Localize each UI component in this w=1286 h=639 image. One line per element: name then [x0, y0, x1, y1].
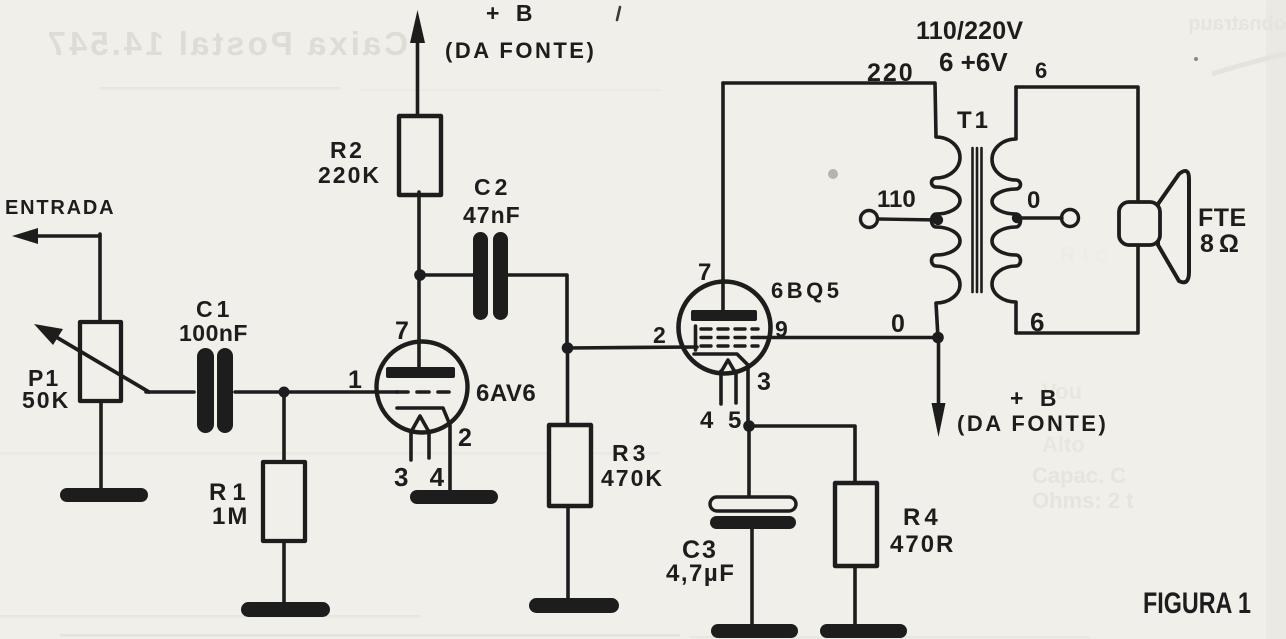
wire P1 to ground	[99, 401, 103, 492]
label 220	[867, 59, 915, 87]
label pin 7 V1	[395, 317, 409, 345]
svg-text:R3: R3	[612, 440, 649, 466]
svg-text:470R: 470R	[890, 531, 955, 558]
svg-text:FIGURA 1: FIGURA 1	[1143, 587, 1251, 620]
svg-text:T1: T1	[957, 107, 991, 134]
wire R4 to ground	[853, 566, 857, 626]
wire R3 to ground	[566, 507, 570, 600]
svg-text:100nF: 100nF	[179, 320, 248, 346]
resistor R2 body	[399, 116, 441, 195]
tube V2 6BQ5 envelope	[679, 282, 771, 374]
svg-text:110/220V: 110/220V	[916, 17, 1023, 45]
wire C2 to R3 junction	[507, 275, 567, 348]
svg-text:6BQ5: 6BQ5	[771, 278, 842, 303]
wire top rail to T1 primary	[723, 81, 934, 85]
svg-text:Caixa Postal 14.547: Caixa Postal 14.547	[45, 25, 408, 62]
svg-text:R4: R4	[903, 504, 942, 531]
tube V1 cathode	[397, 408, 450, 493]
wire R1 to ground	[282, 541, 286, 606]
node 0 junction primary bottom	[932, 332, 944, 344]
node junction C1/R1	[279, 387, 290, 398]
svg-text:Capac. C: Capac. C	[1032, 463, 1126, 488]
wire junction to C2	[420, 273, 474, 277]
svg-text:50K: 50K	[22, 387, 70, 413]
ground under R4	[820, 624, 907, 638]
svg-text:470K: 470K	[601, 465, 664, 491]
speaker FTE driver	[1119, 202, 1160, 245]
label R3 470K	[601, 440, 664, 491]
svg-text:6AV6: 6AV6	[476, 380, 536, 407]
svg-text:ENTRADA: ENTRADA	[5, 197, 115, 219]
node junction C2/R3	[562, 342, 574, 354]
svg-text:0: 0	[1027, 187, 1040, 214]
svg-text:+ B: + B	[486, 0, 537, 26]
label 110	[877, 186, 916, 213]
wire R2 to V1 plate	[417, 192, 421, 369]
capacitor C1	[197, 348, 233, 433]
label R4 470R	[890, 504, 955, 558]
tube V1 plate	[386, 367, 455, 378]
transformer T1 primary winding	[932, 83, 961, 338]
svg-text:(DA FONTE): (DA FONTE)	[445, 38, 596, 63]
label 0 node	[891, 310, 905, 338]
label 6BQ5	[771, 278, 842, 303]
potentiometer P1 wiper arrow	[34, 324, 149, 392]
transformer T1 core	[973, 148, 982, 292]
ground under C3	[711, 624, 798, 638]
tube V2 plate	[691, 310, 757, 321]
label FTE 8ohm	[1198, 204, 1247, 258]
svg-text:2: 2	[653, 322, 666, 348]
label pin 7 V2	[698, 259, 711, 286]
ground under V1 pin2	[410, 490, 498, 504]
wire P1 wiper to C1	[146, 390, 194, 394]
svg-text:2: 2	[458, 424, 472, 452]
wire C1 to grid of V1	[235, 390, 398, 394]
svg-text:0: 0	[891, 310, 905, 338]
label pin 1 V1	[348, 366, 362, 394]
svg-text:4 5: 4 5	[700, 407, 745, 434]
label C3 4,7uF	[666, 536, 735, 587]
wire C3 to ground	[750, 529, 754, 626]
svg-text:R2: R2	[330, 137, 364, 163]
svg-text:6 +6V: 6 +6V	[939, 47, 1008, 77]
svg-text:R1: R1	[209, 479, 252, 506]
label T1	[957, 107, 991, 134]
label ENTRADA	[5, 197, 115, 219]
svg-text:47nF: 47nF	[463, 202, 521, 228]
primary tap terminal 110	[861, 211, 944, 228]
label P1 50K	[22, 365, 70, 413]
label C1 100nF	[179, 296, 248, 346]
svg-text:3 4: 3 4	[394, 462, 451, 492]
label 110/220V	[916, 17, 1023, 45]
wire secondary top to speaker	[1016, 87, 1138, 202]
resistor R1 body	[263, 462, 305, 541]
resistor R3 body	[549, 425, 591, 506]
label pin 9 V2	[775, 316, 788, 342]
wire V2 pin7 to top rail	[721, 83, 725, 312]
label pins 3 4 V1	[394, 462, 451, 492]
wire junction to R4	[749, 426, 855, 484]
label +B top	[486, 0, 537, 26]
speaker FTE cone	[1158, 171, 1189, 282]
label FIGURA 1	[1143, 587, 1251, 620]
label C2 47nF	[463, 174, 521, 228]
svg-text:4,7µF: 4,7µF	[666, 560, 735, 587]
label 0 tap	[1027, 187, 1040, 214]
svg-text:R t c: R t c	[1060, 242, 1108, 267]
ground under R3	[529, 598, 619, 613]
label (DA FONTE) top	[445, 38, 596, 63]
resistor R4 body	[835, 483, 877, 566]
ground under P1	[60, 488, 148, 502]
ground under R1	[241, 602, 330, 617]
svg-text:(DA FONTE): (DA FONTE)	[957, 411, 1108, 436]
tube V2 grids (dashed rows)	[696, 326, 759, 350]
stray ink tick	[617, 7, 620, 20]
tube V1 heater	[411, 416, 429, 460]
wire secondary bottom to speaker	[1016, 245, 1138, 333]
label pin 2 V2	[653, 322, 666, 348]
wire V2 pin9 to node 0	[758, 336, 938, 340]
tube V2 heater	[721, 360, 736, 404]
wire junction to R1	[282, 392, 286, 463]
node junction R2/C2	[414, 269, 426, 281]
svg-text:3: 3	[757, 368, 771, 396]
wire junction to C3	[747, 426, 751, 498]
tube V1 6AV6 envelope	[377, 342, 468, 433]
svg-text:7: 7	[698, 259, 711, 286]
node junction cathode V2	[743, 420, 755, 432]
label (DA FONTE) bottom	[957, 411, 1108, 436]
svg-text:7: 7	[395, 317, 409, 345]
svg-text:1M: 1M	[212, 503, 249, 530]
svg-text:Ohms: 2 t: Ohms: 2 t	[1032, 488, 1134, 513]
svg-text:9: 9	[775, 316, 788, 342]
svg-text:FTE: FTE	[1198, 204, 1247, 232]
svg-text:obnatrauq: obnatrauq	[1188, 13, 1286, 35]
svg-text:8Ω: 8Ω	[1200, 230, 1244, 258]
svg-text:C1: C1	[196, 296, 233, 322]
wire junction to V2 grid	[567, 347, 697, 348]
label R1 1M	[209, 479, 252, 530]
label R2 220K	[318, 137, 381, 188]
tube V2 cathode	[694, 354, 748, 426]
svg-text:C2: C2	[474, 174, 511, 200]
potentiometer P1 body	[80, 322, 121, 401]
svg-text:110: 110	[877, 186, 916, 213]
label +B bottom	[1010, 385, 1061, 411]
wire input to P1	[98, 234, 102, 323]
label 6+6V	[939, 47, 1008, 77]
capacitor C2	[473, 232, 508, 320]
svg-text:220K: 220K	[318, 162, 381, 188]
svg-text:6: 6	[1035, 58, 1047, 83]
svg-text:1: 1	[348, 366, 362, 394]
label pin 2 V1	[458, 424, 472, 452]
+B arrow (bottom)	[932, 338, 946, 438]
label pins 4 5 V2	[700, 407, 745, 434]
wire junction to R3	[566, 348, 570, 426]
label 6 top	[1035, 58, 1047, 83]
secondary tap terminal 0	[1012, 210, 1079, 227]
+B arrow (top)	[410, 10, 425, 116]
input arrow	[12, 228, 100, 244]
svg-text:220: 220	[867, 59, 915, 87]
label 6 bottom	[1030, 307, 1044, 337]
label 6AV6	[476, 380, 536, 407]
tube V1 grid (dashed)	[396, 390, 449, 394]
svg-text:+ B: + B	[1010, 385, 1061, 411]
label pin 3 V2	[757, 368, 771, 396]
transformer T1 secondary winding	[992, 87, 1021, 333]
capacitor C3 (electrolytic)	[710, 497, 796, 529]
